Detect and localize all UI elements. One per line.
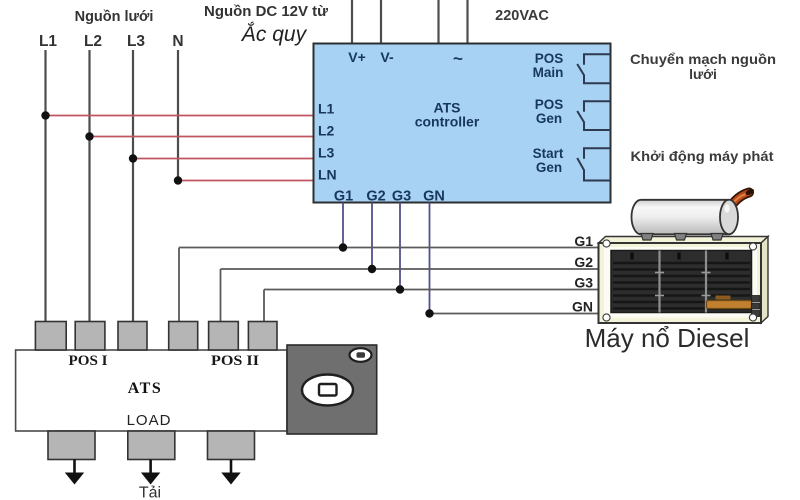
svg-text:Ắc quy: Ắc quy bbox=[240, 22, 308, 46]
terminal tab POS II - 3 bbox=[248, 322, 277, 351]
svg-text:Máy nổ Diesel: Máy nổ Diesel bbox=[585, 323, 750, 353]
svg-text:Gen: Gen bbox=[536, 111, 562, 126]
wire G2 horizontal to generator bbox=[221, 268, 599, 270]
terminal tab POS I - 1 bbox=[35, 322, 66, 351]
svg-text:LN: LN bbox=[318, 167, 337, 183]
svg-text:controller: controller bbox=[415, 114, 480, 130]
switch contact S3 Start Gen bbox=[577, 148, 610, 180]
junction G3 bbox=[396, 285, 404, 293]
generator fuel tank cylinder bbox=[632, 200, 730, 235]
svg-text:lưới: lưới bbox=[689, 66, 717, 82]
switch contact S1 POS Main bbox=[577, 54, 610, 83]
svg-text:POS: POS bbox=[535, 97, 564, 112]
svg-text:G3: G3 bbox=[574, 275, 593, 291]
generator dark vent panel bbox=[611, 251, 752, 313]
junction GN bbox=[425, 309, 433, 317]
side connector block 2 bbox=[752, 303, 761, 309]
panel latch 3 bbox=[725, 253, 728, 260]
svg-text:POS II: POS II bbox=[211, 353, 259, 369]
svg-text:G1: G1 bbox=[574, 233, 593, 249]
svg-text:GN: GN bbox=[423, 189, 445, 205]
wire GN horizontal to generator bbox=[430, 313, 599, 315]
actuator handle ellipse bbox=[302, 375, 353, 406]
generator exhaust pipe bbox=[729, 188, 755, 209]
svg-text:V+: V+ bbox=[348, 49, 366, 65]
wire V+ stub bbox=[351, 0, 353, 44]
svg-text:V-: V- bbox=[380, 49, 394, 65]
fuel pipe short bbox=[716, 296, 731, 300]
svg-text:L2: L2 bbox=[318, 123, 335, 139]
side connector block 1 bbox=[752, 296, 761, 302]
svg-text:ATS: ATS bbox=[128, 380, 162, 397]
wire G2 drop to POS II tab2 bbox=[220, 269, 222, 323]
wire G1 horizontal to generator bbox=[179, 247, 599, 249]
switch contact S2 POS Gen bbox=[577, 101, 610, 130]
wire G2 pin drop bbox=[371, 203, 373, 270]
ATS controller U1 body bbox=[314, 44, 611, 203]
svg-text:LOAD: LOAD bbox=[127, 412, 172, 429]
frame screw bottom-left bbox=[603, 314, 610, 321]
junction L3 bbox=[129, 154, 137, 162]
junction N/LN bbox=[174, 176, 182, 184]
tank exhaust joint highlight bbox=[724, 204, 729, 212]
load tab 1 bbox=[48, 431, 95, 460]
panel latch 2 bbox=[677, 253, 680, 260]
panel divider 1 bbox=[658, 251, 660, 313]
svg-text:G2: G2 bbox=[574, 254, 593, 270]
terminal tab POS I - 3 bbox=[118, 322, 147, 351]
svg-text:Gen: Gen bbox=[536, 160, 562, 175]
wire GN pin drop bbox=[429, 203, 431, 314]
vent stripes bbox=[613, 263, 750, 309]
load arrow 1 bbox=[65, 460, 84, 485]
svg-text:G1: G1 bbox=[334, 189, 353, 205]
actuator box of SW1 bbox=[287, 345, 377, 434]
wire L3 red to controller bbox=[133, 158, 314, 160]
divider tick marks bbox=[655, 273, 711, 296]
wire AC stub 1 bbox=[437, 0, 439, 44]
svg-text:POS: POS bbox=[535, 51, 564, 66]
tank foot 3 bbox=[711, 234, 723, 241]
side connector block 3 bbox=[752, 311, 761, 317]
load arrow 3 bbox=[221, 460, 240, 485]
generator inner bevel bbox=[604, 247, 757, 318]
junction G1 bbox=[339, 243, 347, 251]
load tab 2 bbox=[128, 431, 175, 460]
wire G3 drop to POS II tab3 bbox=[263, 290, 265, 324]
tank foot 2 bbox=[675, 234, 687, 241]
wire L3 vertical bbox=[132, 50, 134, 323]
panel latch 1 bbox=[630, 253, 633, 260]
load arrow 2 bbox=[141, 460, 160, 485]
wire G3 pin drop bbox=[399, 203, 401, 290]
wire V- stub bbox=[380, 0, 382, 44]
svg-text:L3: L3 bbox=[318, 145, 335, 161]
svg-text:Main: Main bbox=[533, 65, 564, 80]
wire AC stub 2 bbox=[466, 0, 468, 44]
svg-text:Nguồn lưới: Nguồn lưới bbox=[75, 9, 154, 25]
wire G3 horizontal to generator bbox=[264, 289, 599, 291]
generator body right face bbox=[761, 237, 768, 324]
svg-text:L3: L3 bbox=[127, 33, 145, 50]
junction L1 bbox=[41, 111, 49, 119]
svg-text:G2: G2 bbox=[366, 189, 385, 205]
svg-text:Start: Start bbox=[533, 146, 564, 161]
frame screw top-left bbox=[603, 240, 610, 247]
svg-text:L1: L1 bbox=[39, 33, 57, 50]
wire N vertical bbox=[177, 50, 179, 181]
actuator indicator dot bbox=[357, 352, 366, 358]
wire L1 red to controller bbox=[46, 115, 314, 117]
tank foot 1 bbox=[641, 234, 653, 241]
generator body top face bbox=[599, 237, 769, 244]
actuator handle slot bbox=[319, 384, 337, 396]
wire L2 red to controller bbox=[90, 136, 314, 138]
wire LN red to controller bbox=[178, 180, 314, 182]
junction L2 bbox=[85, 132, 93, 140]
svg-text:L1: L1 bbox=[318, 101, 335, 117]
svg-text:Nguồn DC 12V từ: Nguồn DC 12V từ bbox=[204, 4, 329, 20]
junction G2 bbox=[368, 265, 376, 273]
actuator indicator ellipse bbox=[350, 348, 372, 362]
svg-text:GN: GN bbox=[572, 299, 593, 315]
terminal tab POS II - 1 bbox=[169, 322, 198, 351]
ATS transfer switch SW1 body bbox=[16, 350, 287, 431]
load tab 3 bbox=[208, 431, 255, 460]
wire L2 vertical bbox=[88, 50, 90, 323]
wire G1 drop to POS II tab1 bbox=[178, 248, 180, 324]
panel divider 2 bbox=[705, 251, 707, 313]
svg-text:L2: L2 bbox=[84, 33, 102, 50]
svg-text:G3: G3 bbox=[392, 189, 411, 205]
svg-text:Khởi động máy phát: Khởi động máy phát bbox=[631, 148, 774, 164]
svg-text:Chuyển mạch nguồn: Chuyển mạch nguồn bbox=[630, 51, 776, 67]
frame screw bottom-right bbox=[749, 314, 756, 321]
wire G1 pin drop bbox=[342, 203, 344, 248]
svg-text:220VAC: 220VAC bbox=[495, 8, 549, 24]
tank right end cap bbox=[720, 200, 738, 235]
wire L1 vertical bbox=[44, 50, 46, 323]
generator body front face bbox=[599, 243, 762, 323]
terminal tab POS I - 2 bbox=[75, 322, 105, 351]
svg-text:POS I: POS I bbox=[69, 353, 108, 369]
svg-text:~: ~ bbox=[453, 49, 463, 68]
terminal tab POS II - 2 bbox=[209, 322, 239, 351]
fuel pipe bar bbox=[707, 301, 752, 309]
frame screw top-right bbox=[749, 243, 756, 250]
svg-text:N: N bbox=[172, 33, 183, 50]
svg-text:Tải: Tải bbox=[139, 485, 161, 500]
